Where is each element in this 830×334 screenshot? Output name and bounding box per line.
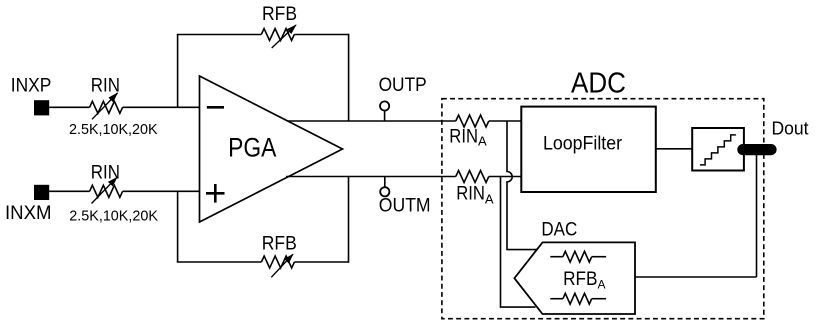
OUTP stem [384, 110, 386, 121]
DAC lower resistor [563, 293, 592, 304]
svg-text:RFB: RFB [262, 4, 297, 25]
svg-text:2.5K,10K,20K: 2.5K,10K,20K [69, 207, 158, 224]
svg-text:DAC: DAC [541, 220, 577, 241]
wire Dout feedback vertical [756, 150, 758, 277]
quantizer block [692, 128, 744, 171]
feedback loop RFB bottom: left vertical wire [177, 191, 179, 262]
svg-text:INXP: INXP [11, 75, 52, 96]
PGA plus input sign [206, 192, 225, 195]
svg-text:PGA: PGA [228, 132, 276, 162]
feedback loop RFB top: left vertical wire [177, 35, 179, 108]
LoopFilter block [521, 107, 656, 192]
quantizer staircase symbol [700, 135, 736, 165]
op-amp PGA [200, 76, 343, 222]
wire RFB bottom left [177, 261, 262, 263]
resistor RINA lower [456, 171, 489, 183]
DAC block [514, 242, 635, 314]
DAC upper resistor [563, 251, 592, 262]
OUTP terminal circle [380, 101, 389, 110]
svg-text:2.5K,10K,20K: 2.5K,10K,20K [69, 121, 158, 138]
svg-text:RIN: RIN [91, 163, 120, 184]
DAC upper resistor lead left [550, 256, 563, 258]
svg-text:Dout: Dout [772, 118, 809, 139]
svg-text:OUTM: OUTM [379, 195, 431, 216]
wire PGA upper output (OUTP net) [288, 120, 456, 122]
resistor RIN (bottom) [90, 185, 123, 197]
svg-text:INXM: INXM [5, 203, 52, 224]
ADC dashed boundary box [442, 99, 764, 319]
DAC upper resistor lead right [592, 256, 606, 258]
INXM terminal [34, 185, 49, 200]
svg-text:LoopFilter: LoopFilter [543, 133, 623, 154]
resistor RFB (bottom) [261, 256, 294, 268]
wire RFB top right [294, 34, 348, 36]
wire RIN to PGA minus input [123, 106, 200, 108]
resistor RIN (top) [90, 101, 123, 113]
svg-text:RFB: RFB [262, 234, 297, 255]
Dout terminal capsule [737, 144, 776, 155]
wire RFB bottom right [294, 261, 348, 263]
OUTM stem [384, 177, 386, 188]
wire INXP to RIN [49, 106, 89, 108]
wire RINA upper to LoopFilter [489, 120, 522, 122]
DAC lower resistor lead right [592, 298, 606, 300]
svg-text:OUTP: OUTP [379, 75, 427, 96]
svg-text:ADC: ADC [571, 67, 626, 99]
wire RIN to PGA plus input [123, 190, 200, 192]
wire lower node down to DAC [501, 177, 536, 308]
svg-text:RIN: RIN [91, 75, 120, 96]
wire PGA lower output (OUTM net) [286, 176, 456, 178]
resistor RFB (top) [261, 29, 294, 41]
DAC lower resistor lead left [550, 298, 563, 300]
wire INXM to RIN [49, 190, 89, 192]
right vertical wire RFB bottom to OUTM net [348, 177, 350, 263]
OUTM terminal circle [380, 187, 389, 196]
resistor RINA upper [456, 115, 489, 127]
INXP terminal [34, 100, 49, 115]
wire feedback to DAC [635, 276, 757, 278]
PGA minus input sign [207, 106, 224, 109]
wire RFB top left [177, 34, 261, 36]
right vertical wire RFB top to OUTP net [348, 34, 350, 121]
wire upper node down to DAC (with hop) [507, 121, 537, 250]
wire RINA lower to LoopFilter [489, 176, 522, 178]
wire LoopFilter to quantizer [656, 148, 692, 150]
